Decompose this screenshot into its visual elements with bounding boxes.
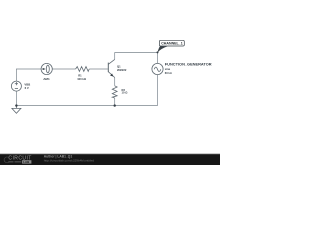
wire: FG bottom lead: [157, 75, 159, 106]
svg-text:http://circuitlab.com/c329b4b/: http://circuitlab.com/c329b4b/untitled: [44, 159, 94, 163]
wire: emitter vertical lead: [114, 78, 116, 86]
node: CHANNEL_1 junction dot: [157, 51, 159, 53]
svg-text:R1: R1: [78, 74, 82, 78]
resistor R1: [76, 67, 90, 72]
label Q1 / 2N2222: [117, 65, 127, 73]
svg-text:100 kΩ: 100 kΩ: [77, 77, 87, 81]
ammeter AM1: [41, 63, 52, 74]
svg-text:FUNCTION_GENERATOR: FUNCTION_GENERATOR: [165, 61, 212, 66]
footer logo LAB box: [22, 160, 31, 163]
svg-text:CHANNEL_1: CHANNEL_1: [161, 42, 183, 46]
wire: source top lead and corner to ammeter: [16, 69, 41, 81]
label VBB / 6 V: [24, 83, 30, 90]
svg-text:sine: sine: [165, 67, 171, 71]
transistor Q1 base bar: [107, 63, 109, 73]
label R2 / 10 Ohm: [122, 88, 129, 95]
voltage source VBB: [11, 81, 21, 91]
svg-text:LAB: LAB: [23, 160, 30, 164]
wire: R1 to Q1 base: [89, 68, 108, 70]
transistor Q1 emitter arrowhead: [110, 74, 113, 77]
svg-text:60 Hz: 60 Hz: [165, 71, 173, 75]
footer logo swirl: [4, 157, 8, 163]
footer logo wire lines: [8, 161, 13, 163]
label R1 / 100 kOhm: [77, 74, 87, 82]
transistor Q1 collector and emitter: [108, 59, 114, 77]
wire: collector vertical lead: [114, 52, 116, 59]
svg-text:2N2222: 2N2222: [117, 68, 127, 72]
resistor R2: [112, 86, 117, 98]
footer bar: [0, 154, 220, 165]
wire: source bottom lead: [15, 91, 17, 106]
wire: R2 bottom lead: [114, 98, 116, 106]
svg-text:6 V: 6 V: [25, 86, 29, 90]
ground: [12, 106, 21, 114]
svg-text:Q1: Q1: [117, 65, 121, 69]
wire: bottom rail: [16, 105, 157, 107]
node label pointer wedge: [157, 46, 167, 53]
svg-text:10 Ω: 10 Ω: [122, 91, 129, 95]
function generator: [152, 63, 163, 74]
wire: ammeter to R1: [52, 68, 75, 70]
wire: top rail from collector to node: [115, 51, 158, 53]
node: ground junction dot: [15, 104, 17, 106]
wire: FG top lead: [157, 52, 159, 63]
svg-text:AM1: AM1: [43, 77, 50, 81]
node: R2 bottom junction dot: [114, 104, 116, 106]
node label CHANNEL_1 box: [159, 40, 184, 46]
